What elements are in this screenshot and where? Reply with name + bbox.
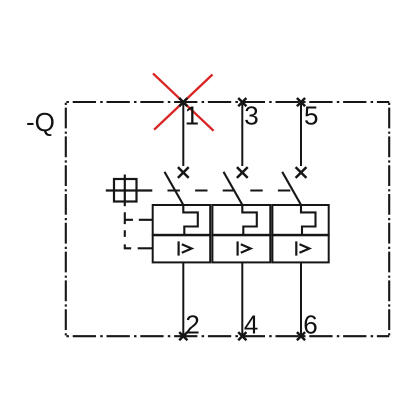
trip linkage dashed (actuator to releases) — [124, 212, 153, 248]
wire pole3 bottom (to pin 6) — [300, 262, 302, 336]
switch lever pole3 — [282, 172, 301, 205]
wire pole2 top (pin3 to contact) — [241, 102, 243, 166]
manual actuator (square with cross) — [106, 175, 153, 207]
terminal x mark pin 3 — [238, 98, 246, 106]
switch lever pole2 — [224, 172, 243, 205]
pin label 2 — [185, 309, 199, 339]
terminal x mark pin 5 — [297, 98, 305, 106]
pin label 1 — [185, 100, 199, 130]
contact point x pole2 — [237, 167, 248, 178]
svg-text:2: 2 — [185, 309, 199, 339]
wire pole2 bottom (to pin 4) — [241, 262, 243, 336]
thermal release cell pole3 — [272, 205, 328, 235]
breaker -Q enclosure boundary (dash-dot box) — [66, 102, 389, 336]
terminal x mark pin 2 — [179, 332, 187, 340]
contact point x pole3 — [296, 167, 307, 178]
magnetic release cell pole3 — [272, 235, 328, 262]
pin label 6 — [303, 309, 317, 339]
contact point x pole1 — [178, 167, 189, 178]
thermal element symbol pole3 — [301, 205, 316, 235]
wire pole1 top (pin1 to contact) — [182, 102, 184, 166]
magnetic trip I> symbol pole1 — [179, 241, 192, 255]
mechanical coupling dashed link — [168, 190, 293, 192]
wire pole1 bottom (to pin 2) — [182, 262, 184, 336]
magnetic release cell pole1 — [153, 235, 211, 262]
pin label 3 — [244, 100, 258, 130]
terminal x mark pin 1 — [179, 98, 187, 106]
svg-text:5: 5 — [304, 100, 318, 130]
wire pole3 top (pin5 to contact) — [300, 102, 302, 166]
thermal element symbol pole1 — [183, 205, 198, 235]
thermal release cell pole2 — [212, 205, 270, 235]
label -Q — [26, 107, 55, 137]
terminal x mark pin 4 — [238, 332, 246, 340]
svg-text:-Q: -Q — [26, 107, 55, 137]
magnetic release cell pole2 — [212, 235, 270, 262]
pin label 4 — [244, 309, 258, 339]
red X fault mark on terminal 1 — [153, 73, 214, 130]
thermal element symbol pole2 — [242, 205, 256, 235]
thermal release cell pole1 — [153, 205, 211, 235]
magnetic trip I> symbol pole3 — [296, 241, 309, 255]
pin label 5 — [304, 100, 318, 130]
terminal x mark pin 6 — [297, 332, 305, 340]
svg-text:4: 4 — [244, 309, 258, 339]
svg-text:6: 6 — [303, 309, 317, 339]
switch lever pole1 — [165, 172, 184, 205]
magnetic trip I> symbol pole2 — [238, 241, 251, 255]
